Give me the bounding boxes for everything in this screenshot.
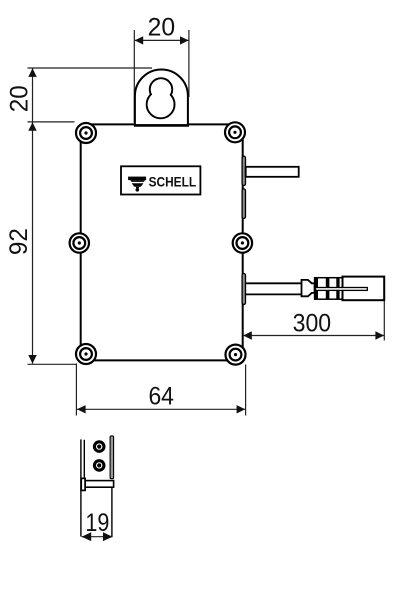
connector collar and neck bbox=[302, 280, 315, 296]
svg-text:92: 92 bbox=[5, 228, 33, 255]
main box body bbox=[81, 124, 243, 360]
dimension 64: extension line left bbox=[75, 364, 77, 416]
dimension 300: arrow left bbox=[243, 331, 252, 339]
side view: small left tab bbox=[81, 478, 85, 490]
dimension 20/92 left: shared dimension line bbox=[32, 68, 34, 363]
rib 2 bbox=[326, 278, 330, 300]
dimension 300: arrow right bbox=[375, 331, 384, 339]
dimension 20 top: dimension line bbox=[135, 39, 189, 41]
dimension 92: extension line bottom bbox=[28, 363, 77, 365]
hanger tab bbox=[135, 70, 188, 126]
svg-text:19: 19 bbox=[85, 509, 109, 537]
side view: right line bbox=[111, 488, 113, 537]
lower cable bottom line bbox=[246, 293, 302, 295]
side view: screw 1 bbox=[93, 440, 106, 453]
dimension 64: dimension line bbox=[77, 408, 245, 410]
screw boss bottom-left bbox=[76, 344, 96, 364]
SCHELL logo plate bbox=[121, 166, 200, 194]
svg-text:20: 20 bbox=[148, 14, 176, 42]
screw boss top-right bbox=[225, 122, 245, 142]
dimension 20 top: extension line left bbox=[133, 30, 135, 123]
side view: left outer line bbox=[80, 439, 82, 536]
dimension 20 top: arrow left bbox=[135, 36, 144, 44]
lower cable top line bbox=[246, 282, 302, 284]
side view: screw 2 bbox=[93, 459, 106, 472]
rib 3 bbox=[336, 278, 339, 300]
dimension 300: extension line right bbox=[383, 301, 385, 341]
connector tab 2 (grey) bbox=[242, 189, 245, 219]
svg-text:SCHELL: SCHELL bbox=[149, 175, 197, 190]
connector tab 3 (grey, cable exit) bbox=[242, 274, 245, 305]
side view: bottom flange band bbox=[85, 481, 113, 488]
connector tab 1 (upper right, grey) bbox=[242, 156, 245, 185]
svg-text:300: 300 bbox=[293, 310, 332, 338]
dimension 19: dimension line bbox=[82, 536, 113, 538]
dimension 92: arrow down at bottom bbox=[28, 355, 36, 364]
screw boss mid-right bbox=[233, 233, 252, 252]
svg-text:64: 64 bbox=[148, 383, 174, 411]
dimension 20/92 junction: extension line (box top level) bbox=[28, 121, 75, 123]
dimension 64: arrow right bbox=[237, 405, 246, 413]
screw boss top-left bbox=[76, 123, 96, 143]
plug slot bbox=[316, 288, 368, 291]
dimension 20 top: extension line right bbox=[188, 30, 190, 97]
screw boss mid-left bbox=[70, 233, 89, 252]
SCHELL logo mark bbox=[128, 177, 146, 192]
dimension 300: dimension line bbox=[243, 335, 384, 337]
side view: grey tab strip (right) bbox=[110, 436, 114, 479]
side view: left inner line bbox=[83, 440, 85, 482]
dimension 19: arrow left bbox=[82, 532, 92, 541]
svg-text:20: 20 bbox=[6, 85, 34, 112]
dimension 20 top: arrow right bbox=[180, 36, 189, 44]
connector ribbed body bbox=[315, 278, 343, 300]
upper cable (short stub) bbox=[246, 167, 299, 177]
dimension 19: arrow right bbox=[103, 532, 113, 541]
keyhole slot bbox=[147, 78, 175, 118]
dimension 20 left: arrow up bbox=[28, 68, 36, 77]
dimension 20 left: extension line top (dome top level) bbox=[28, 67, 153, 69]
rib 1 bbox=[315, 278, 318, 300]
dimension 64: arrow left bbox=[77, 405, 86, 413]
dimension 64: extension line right bbox=[245, 365, 247, 416]
box top edge under tab bbox=[134, 124, 189, 127]
plug body bbox=[343, 277, 385, 301]
screw boss bottom-right bbox=[226, 345, 246, 365]
dimension 92: arrow up at junction bbox=[28, 122, 36, 131]
